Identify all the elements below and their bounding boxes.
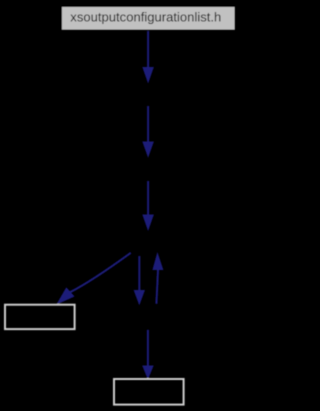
svg-text:xsoutputconfigurationlist.h: xsoutputconfigurationlist.h (70, 10, 221, 24)
